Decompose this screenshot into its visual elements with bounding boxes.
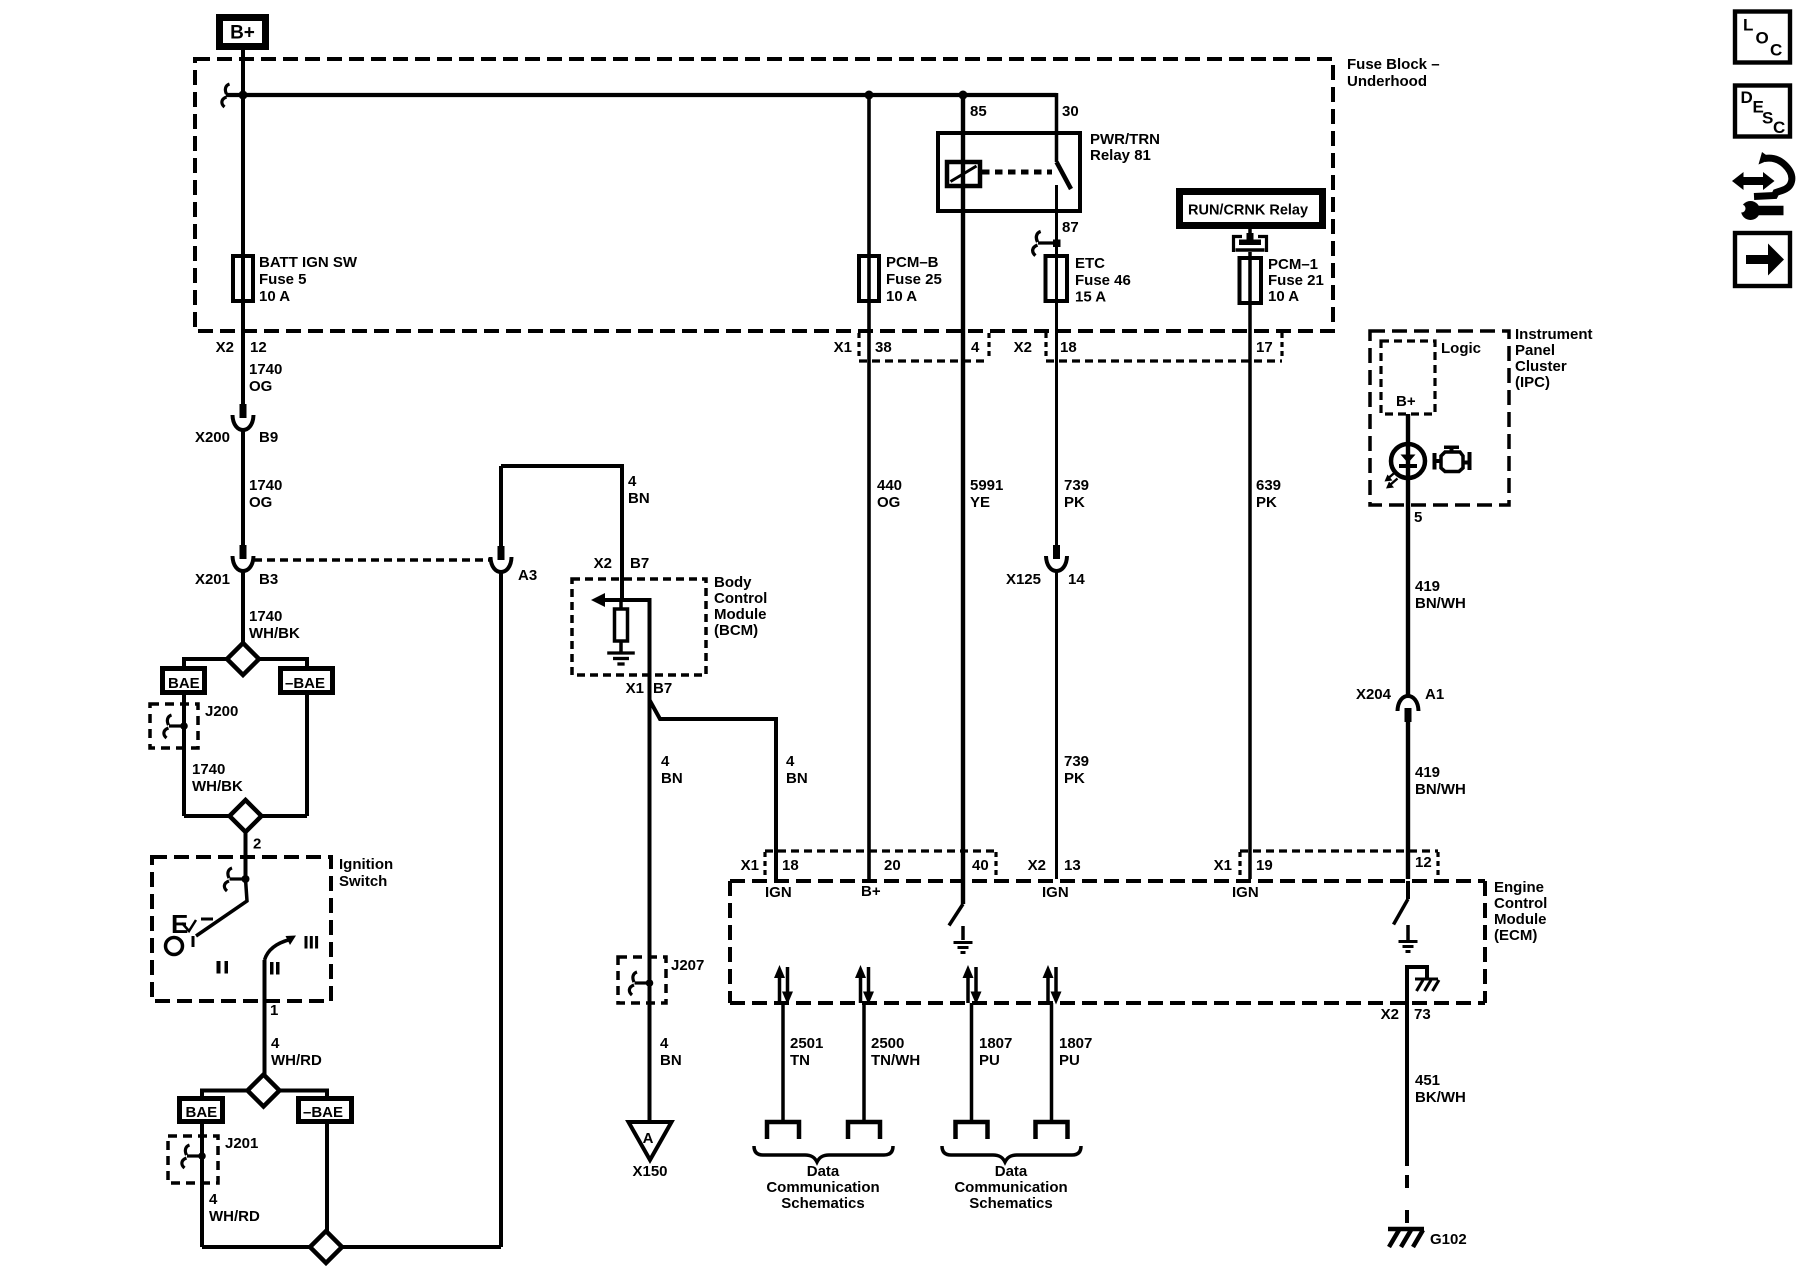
svg-text:Logic: Logic (1441, 340, 1481, 357)
svg-text:Control: Control (1494, 895, 1547, 912)
svg-text:Fuse 21: Fuse 21 (1268, 272, 1324, 289)
svg-text:40: 40 (972, 857, 989, 874)
svg-text:Switch: Switch (339, 873, 387, 890)
svg-text:PWR/TRN: PWR/TRN (1090, 131, 1160, 148)
svg-text:38: 38 (875, 339, 892, 356)
svg-text:L: L (1743, 16, 1753, 35)
svg-text:BATT IGN SW: BATT IGN SW (259, 254, 358, 271)
svg-text:X1: X1 (626, 680, 644, 697)
svg-text:X2: X2 (1381, 1006, 1399, 1023)
svg-text:B9: B9 (259, 429, 278, 446)
svg-text:X2: X2 (594, 555, 612, 572)
svg-text:(ECM): (ECM) (1494, 927, 1537, 944)
svg-text:J200: J200 (205, 703, 238, 720)
svg-text:10 A: 10 A (886, 288, 917, 305)
svg-text:G102: G102 (1430, 1231, 1467, 1248)
svg-text:OG: OG (877, 494, 900, 511)
svg-text:Underhood: Underhood (1347, 73, 1427, 90)
svg-text:BN/WH: BN/WH (1415, 781, 1466, 798)
svg-text:4: 4 (661, 753, 670, 770)
svg-text:PCM–B: PCM–B (886, 254, 939, 271)
svg-text:BN: BN (661, 770, 683, 787)
svg-text:13: 13 (1064, 857, 1081, 874)
svg-text:B+: B+ (1396, 393, 1416, 410)
svg-text:OG: OG (249, 494, 272, 511)
svg-text:4: 4 (786, 753, 795, 770)
svg-text:Instrument: Instrument (1515, 326, 1593, 343)
svg-text:BAE: BAE (186, 1104, 218, 1121)
svg-text:12: 12 (1415, 854, 1432, 871)
svg-text:1740: 1740 (192, 761, 225, 778)
svg-text:Cluster: Cluster (1515, 358, 1567, 375)
svg-text:BN: BN (660, 1052, 682, 1069)
svg-text:RUN/CRNK Relay: RUN/CRNK Relay (1188, 203, 1308, 219)
svg-text:WH/RD: WH/RD (271, 1052, 322, 1069)
svg-text:WH/BK: WH/BK (249, 625, 300, 642)
svg-text:OG: OG (249, 378, 272, 395)
svg-text:14: 14 (1068, 571, 1085, 588)
svg-text:20: 20 (884, 857, 901, 874)
svg-text:73: 73 (1414, 1006, 1431, 1023)
svg-text:4: 4 (628, 473, 637, 490)
svg-text:X2: X2 (216, 339, 234, 356)
svg-text:4: 4 (271, 1035, 280, 1052)
svg-text:10 A: 10 A (259, 288, 290, 305)
svg-text:1740: 1740 (249, 361, 282, 378)
svg-text:TN/WH: TN/WH (871, 1052, 920, 1069)
svg-text:IGN: IGN (765, 884, 792, 901)
svg-text:X200: X200 (195, 429, 230, 446)
svg-text:1: 1 (270, 1002, 278, 1019)
svg-text:Ignition: Ignition (339, 856, 393, 873)
svg-text:X2: X2 (1028, 857, 1046, 874)
svg-text:B+: B+ (230, 23, 255, 44)
svg-text:WH/RD: WH/RD (209, 1208, 260, 1225)
svg-text:Data: Data (807, 1163, 840, 1180)
svg-text:Engine: Engine (1494, 879, 1544, 896)
svg-text:PU: PU (1059, 1052, 1080, 1069)
svg-text:PCM–1: PCM–1 (1268, 256, 1318, 273)
svg-text:BN: BN (786, 770, 808, 787)
svg-text:ETC: ETC (1075, 255, 1105, 272)
svg-text:B7: B7 (653, 680, 672, 697)
svg-text:15 A: 15 A (1075, 289, 1106, 306)
svg-text:BAE: BAE (168, 675, 200, 692)
svg-text:12: 12 (250, 339, 267, 356)
svg-text:Module: Module (714, 606, 767, 623)
svg-text:Fuse 25: Fuse 25 (886, 271, 942, 288)
svg-text:S: S (1762, 109, 1773, 128)
svg-text:X150: X150 (632, 1163, 667, 1180)
svg-text:419: 419 (1415, 578, 1440, 595)
svg-text:4: 4 (971, 339, 980, 356)
svg-text:TN: TN (790, 1052, 810, 1069)
svg-text:BN/WH: BN/WH (1415, 595, 1466, 612)
svg-text:IGN: IGN (1232, 884, 1259, 901)
svg-text:18: 18 (782, 857, 799, 874)
svg-text:PU: PU (979, 1052, 1000, 1069)
svg-text:87: 87 (1062, 219, 1079, 236)
svg-text:IGN: IGN (1042, 884, 1069, 901)
svg-text:451: 451 (1415, 1072, 1440, 1089)
svg-text:Schematics: Schematics (781, 1195, 864, 1212)
svg-text:Body: Body (714, 574, 752, 591)
svg-text:X125: X125 (1006, 571, 1041, 588)
svg-text:30: 30 (1062, 103, 1079, 120)
svg-text:B3: B3 (259, 571, 278, 588)
svg-text:419: 419 (1415, 764, 1440, 781)
svg-text:4: 4 (209, 1191, 218, 1208)
svg-text:WH/BK: WH/BK (192, 778, 243, 795)
svg-text:J207: J207 (671, 957, 704, 974)
svg-text:A1: A1 (1425, 686, 1444, 703)
svg-text:739: 739 (1064, 477, 1089, 494)
svg-text:739: 739 (1064, 753, 1089, 770)
svg-text:4: 4 (660, 1035, 669, 1052)
svg-text:5991: 5991 (970, 477, 1003, 494)
svg-text:17: 17 (1256, 339, 1273, 356)
svg-text:Module: Module (1494, 911, 1547, 928)
svg-text:J201: J201 (225, 1135, 258, 1152)
svg-text:Data: Data (995, 1163, 1028, 1180)
svg-text:D: D (1741, 88, 1753, 107)
svg-text:Control: Control (714, 590, 767, 607)
svg-text:1740: 1740 (249, 477, 282, 494)
svg-text:PK: PK (1064, 494, 1085, 511)
svg-text:E: E (171, 909, 188, 939)
svg-text:X1: X1 (834, 339, 852, 356)
svg-text:10 A: 10 A (1268, 288, 1299, 305)
svg-text:1807: 1807 (1059, 1035, 1092, 1052)
svg-text:X204: X204 (1356, 686, 1392, 703)
svg-text:A: A (643, 1130, 654, 1147)
svg-text:Fuse 5: Fuse 5 (259, 271, 307, 288)
svg-text:YE: YE (970, 494, 990, 511)
svg-text:B+: B+ (861, 883, 881, 900)
svg-text:BN: BN (628, 490, 650, 507)
svg-text:1807: 1807 (979, 1035, 1012, 1052)
svg-text:440: 440 (877, 477, 902, 494)
svg-text:–BAE: –BAE (303, 1104, 343, 1121)
svg-text:85: 85 (970, 103, 987, 120)
svg-text:X201: X201 (195, 571, 230, 588)
svg-text:5: 5 (1414, 509, 1422, 526)
svg-text:Relay 81: Relay 81 (1090, 147, 1151, 164)
svg-text:19: 19 (1256, 857, 1273, 874)
svg-text:(BCM): (BCM) (714, 622, 758, 639)
svg-text:O: O (1756, 29, 1769, 48)
svg-text:Schematics: Schematics (969, 1195, 1052, 1212)
svg-text:Communication: Communication (766, 1179, 879, 1196)
svg-text:(IPC): (IPC) (1515, 374, 1550, 391)
svg-text:1740: 1740 (249, 608, 282, 625)
svg-text:2500: 2500 (871, 1035, 904, 1052)
svg-text:639: 639 (1256, 477, 1281, 494)
svg-text:A3: A3 (518, 567, 537, 584)
svg-text:X1: X1 (1214, 857, 1232, 874)
svg-text:X1: X1 (741, 857, 759, 874)
svg-text:PK: PK (1256, 494, 1277, 511)
svg-text:Communication: Communication (954, 1179, 1067, 1196)
svg-text:18: 18 (1060, 339, 1077, 356)
svg-text:X2: X2 (1014, 339, 1032, 356)
svg-text:Fuse 46: Fuse 46 (1075, 272, 1131, 289)
svg-text:C: C (1770, 41, 1782, 60)
svg-text:C: C (1773, 118, 1785, 137)
svg-text:–BAE: –BAE (285, 675, 325, 692)
svg-text:B7: B7 (630, 555, 649, 572)
svg-text:2501: 2501 (790, 1035, 823, 1052)
svg-text:2: 2 (253, 836, 261, 853)
svg-text:Fuse Block –: Fuse Block – (1347, 56, 1440, 73)
svg-text:BK/WH: BK/WH (1415, 1089, 1466, 1106)
svg-text:Panel: Panel (1515, 342, 1555, 359)
svg-text:PK: PK (1064, 770, 1085, 787)
